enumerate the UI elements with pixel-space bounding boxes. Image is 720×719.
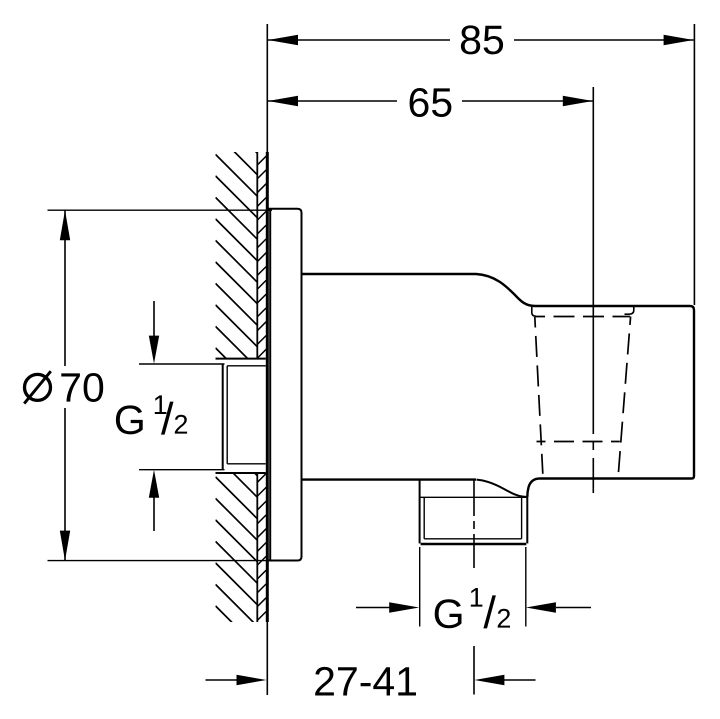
label fraction numerator 1 (outlet) — [471, 588, 483, 607]
outlet thread extension lines — [420, 547, 526, 627]
outlet thread dimension arrow right — [556, 607, 591, 609]
label fraction denominator 2 (outlet) — [498, 609, 510, 628]
outlet thread root line left — [423, 498, 425, 539]
inlet thread extension lines — [139, 364, 225, 470]
inlet pipe opening in wall — [216, 359, 266, 473]
arrowhead 85 left — [268, 35, 298, 45]
label fraction denominator 2 (inlet) — [175, 415, 187, 434]
dimension line 27-41 right part — [504, 679, 536, 681]
wall finish layer boundary line — [256, 152, 258, 622]
label fraction numerator 1 (inlet) — [155, 395, 167, 414]
wall section hatching (45-degree) — [216, 111, 258, 648]
holder cone hidden edge right (dashed) — [618, 317, 630, 475]
dimension line 27-41 left part — [206, 679, 238, 681]
outlet centerline — [473, 480, 475, 695]
holder cone hidden edge left (dashed) — [535, 317, 543, 474]
value label 70 — [61, 373, 103, 402]
dimension line 85 — [268, 39, 694, 41]
outlet thread right edge — [526, 497, 528, 543]
arrowhead 27-41 left — [237, 675, 267, 685]
arrowhead 65 right — [563, 96, 593, 106]
escutcheon flange base edge — [269, 210, 271, 560]
inlet thread outer edge — [222, 364, 224, 470]
value label 27-41 — [315, 667, 416, 696]
label fraction slash (outlet) — [483, 595, 496, 628]
holder cone hidden top edge (dashed) — [535, 316, 630, 318]
outlet taper curve — [477, 480, 528, 497]
outlet end face — [421, 543, 527, 546]
body bottom edge — [302, 478, 477, 480]
dimension line diameter 70 — [64, 210, 66, 560]
arrowhead dia70 bottom — [60, 531, 70, 561]
outlet thread root line right — [521, 498, 523, 539]
inlet thread crest lines — [227, 366, 266, 464]
inlet thread dimension arrow bottom — [153, 496, 155, 531]
inlet thread dimension arrow top — [153, 301, 155, 338]
outlet thread dimension arrow left — [356, 607, 390, 609]
holder recess step right — [625, 307, 634, 314]
extension line at holder right face — [693, 24, 695, 305]
escutcheon flange outline — [267, 209, 301, 561]
extension lines diameter 70 — [48, 210, 278, 560]
holder cone hidden bottom edge (dashed) — [537, 441, 620, 443]
label G letter (inlet) — [116, 405, 143, 434]
label fraction slash (inlet) — [161, 402, 174, 435]
arrowhead 27-41 right — [474, 675, 504, 685]
dimension line 65 — [268, 100, 593, 102]
extension line at wall face — [266, 24, 268, 695]
label G letter (outlet) — [435, 599, 462, 628]
arrowhead 85 right — [664, 35, 694, 45]
body outline (top edge, S-curve, holder shelf, right face, arm bottom, wrist) — [302, 274, 695, 497]
diameter symbol of label dia70 — [25, 374, 51, 400]
outlet thread left edge — [419, 480, 421, 544]
wall face line — [266, 152, 269, 622]
holder centerline — [592, 87, 594, 493]
wall finish layer chevron hatching — [257, 142, 267, 621]
arrowhead dia70 top — [60, 210, 70, 240]
value label 65 — [410, 88, 452, 117]
holder recess step left — [532, 307, 536, 316]
outlet thread root line bottom — [424, 538, 521, 540]
arrowhead 65 left — [268, 96, 298, 106]
value label 85 — [461, 25, 503, 54]
inlet thread root edge — [226, 366, 228, 464]
outlet thread top line — [420, 496, 528, 498]
